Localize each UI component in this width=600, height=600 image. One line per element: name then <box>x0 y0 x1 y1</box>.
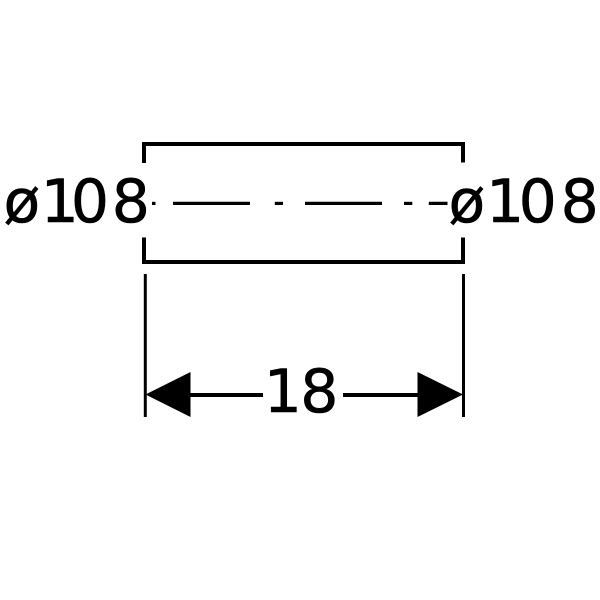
svg-text:ø108: ø108 <box>4 167 150 237</box>
svg-text:18: 18 <box>264 357 339 427</box>
svg-text:ø108: ø108 <box>449 167 599 237</box>
